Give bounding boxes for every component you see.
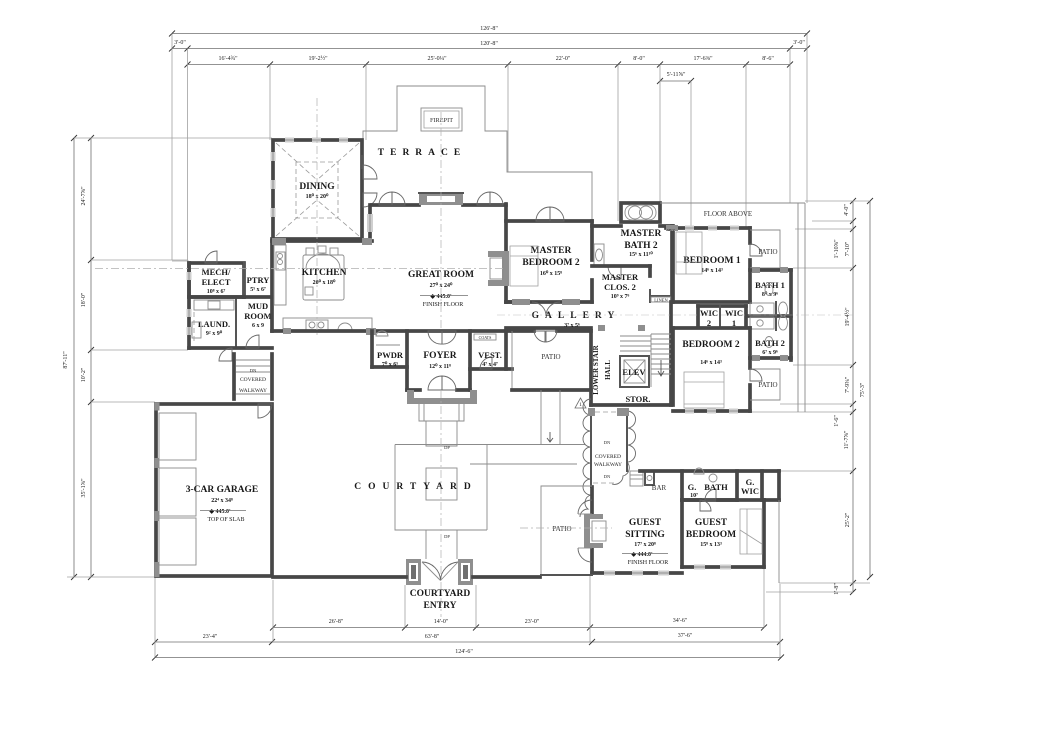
room label MASTER BEDROOM 2 bbox=[522, 246, 580, 277]
svg-text:GALLERY: GALLERY bbox=[532, 311, 621, 321]
room VEST walls bbox=[470, 331, 512, 369]
svg-text:SITTING: SITTING bbox=[625, 530, 665, 540]
svg-text:LAUND.: LAUND. bbox=[198, 319, 230, 329]
room DINING walls bbox=[273, 140, 362, 239]
room BEDROOM 1 bbox=[683, 256, 741, 274]
patio lower right bbox=[750, 369, 780, 400]
svg-text:126'-8": 126'-8" bbox=[480, 26, 498, 32]
entry porch bbox=[407, 390, 477, 446]
south wall bbox=[273, 575, 540, 579]
svg-text:7⁰ x 6⁵: 7⁰ x 6⁵ bbox=[382, 361, 398, 368]
svg-text:25'-2": 25'-2" bbox=[845, 512, 851, 527]
svg-text:COVERED: COVERED bbox=[595, 454, 621, 460]
svg-text:PATIO: PATIO bbox=[758, 248, 777, 256]
svg-text:FOYER: FOYER bbox=[423, 351, 456, 361]
svg-text:12⁰ x 11⁸: 12⁰ x 11⁸ bbox=[429, 363, 451, 370]
svg-text:1'-6": 1'-6" bbox=[834, 415, 840, 427]
svg-text:16'-4¾": 16'-4¾" bbox=[218, 55, 238, 62]
guest sitting fireplace bbox=[584, 514, 606, 548]
room GUEST BEDROOM walls bbox=[682, 500, 764, 567]
guest wing right lines bbox=[778, 500, 780, 583]
svg-text:18'-0": 18'-0" bbox=[81, 292, 87, 307]
svg-text:5⁵ x 6⁷: 5⁵ x 6⁷ bbox=[250, 287, 266, 293]
dimension line bottom 124'-6" bbox=[152, 649, 784, 661]
patio walkway to courtyard bbox=[541, 390, 560, 444]
svg-text:FLOOR ABOVE: FLOOR ABOVE bbox=[704, 210, 752, 218]
svg-text:BEDROOM 2: BEDROOM 2 bbox=[682, 340, 740, 350]
dimension lines left side bbox=[63, 135, 94, 580]
svg-text:MASTER: MASTER bbox=[621, 229, 662, 239]
room label LOWER STAIR HALL bbox=[592, 344, 612, 394]
svg-text:25'-0¼": 25'-0¼" bbox=[427, 56, 447, 62]
svg-text:ELEV: ELEV bbox=[622, 367, 646, 377]
room label G BATH bbox=[688, 482, 728, 499]
svg-text:10'-2": 10'-2" bbox=[81, 367, 87, 382]
courtyard entry posts bbox=[406, 559, 473, 585]
svg-text:DN: DN bbox=[604, 474, 611, 479]
room G BATH walls bbox=[682, 468, 737, 500]
linen closet bbox=[651, 297, 671, 303]
svg-text:8⁰ x 9⁶: 8⁰ x 9⁶ bbox=[762, 291, 778, 298]
master bedroom doors to terrace bbox=[536, 207, 564, 221]
bedroom2 bed furniture bbox=[684, 372, 724, 408]
windows dining left wall bbox=[271, 152, 276, 217]
room BATH 1 walls bbox=[750, 267, 791, 360]
svg-text:22'-0": 22'-0" bbox=[556, 56, 571, 62]
room label GUEST SITTING bbox=[622, 518, 668, 566]
room MECH/ELECT walls bbox=[172, 261, 244, 297]
windows bedroom2 bottom wall bbox=[685, 409, 738, 414]
svg-text:4⁷ x 4⁷: 4⁷ x 4⁷ bbox=[482, 362, 498, 368]
svg-text:PATIO: PATIO bbox=[541, 353, 560, 361]
svg-text:WALKWAY: WALKWAY bbox=[239, 388, 267, 394]
svg-text:DP: DP bbox=[444, 445, 450, 450]
svg-text:6 x 9: 6 x 9 bbox=[252, 323, 264, 329]
svg-text:CLOS. 2: CLOS. 2 bbox=[604, 282, 636, 292]
svg-text:20⁰ x 18⁰: 20⁰ x 18⁰ bbox=[313, 279, 336, 286]
room label MECH/ELECT bbox=[202, 267, 231, 295]
bedroom wing top wall bbox=[666, 225, 750, 302]
bedroom1 right wall and patio door bbox=[750, 228, 762, 302]
guest wing top wall bbox=[640, 471, 779, 500]
firepit bbox=[421, 108, 462, 131]
svg-text:◆ 444.0': ◆ 444.0' bbox=[630, 551, 653, 558]
room label GALLERY bbox=[532, 311, 621, 329]
courtyard east edge lines bbox=[395, 445, 585, 531]
floor above outline bbox=[660, 203, 805, 412]
svg-text:3-CAR GARAGE: 3-CAR GARAGE bbox=[186, 485, 259, 495]
svg-text:63'-8": 63'-8" bbox=[425, 634, 440, 640]
window great room west wall bbox=[367, 214, 373, 232]
dining door arc to terrace bbox=[363, 165, 377, 179]
svg-text:DN: DN bbox=[604, 440, 611, 445]
room label MUD ROOM bbox=[244, 301, 271, 329]
centerline gallery bbox=[497, 314, 853, 316]
svg-text:SH.V: SH.V bbox=[667, 228, 675, 232]
patio center walls bbox=[512, 331, 591, 390]
room label PTRY bbox=[247, 275, 270, 293]
laundry counters bbox=[192, 300, 234, 344]
svg-text:1'-10⅝": 1'-10⅝" bbox=[834, 239, 840, 259]
svg-text:ROOM: ROOM bbox=[244, 311, 271, 321]
svg-text:PATIO: PATIO bbox=[758, 381, 777, 389]
courtyard centerline bbox=[441, 390, 450, 617]
windows bedroom1 top wall bbox=[685, 226, 739, 231]
svg-text:16⁰ x 15⁸: 16⁰ x 15⁸ bbox=[540, 270, 562, 277]
garage door arc top right bbox=[258, 404, 272, 418]
patio guest bbox=[520, 486, 612, 575]
svg-text:BEDROOM: BEDROOM bbox=[686, 530, 736, 540]
room MUD ROOM walls bbox=[189, 263, 272, 348]
svg-text:BEDROOM 1: BEDROOM 1 bbox=[683, 256, 741, 266]
svg-text:37'-6": 37'-6" bbox=[678, 633, 693, 639]
svg-text:MASTER: MASTER bbox=[531, 246, 572, 256]
svg-text:COVERED: COVERED bbox=[240, 377, 266, 383]
stair hall opening to gallery bbox=[598, 325, 645, 331]
extension lines right bbox=[748, 201, 870, 592]
svg-text:FINISH FLOOR: FINISH FLOOR bbox=[423, 302, 464, 308]
svg-text:23'-4": 23'-4" bbox=[203, 634, 218, 640]
svg-text:G.: G. bbox=[688, 482, 697, 492]
courtyard paved square bbox=[395, 445, 487, 531]
svg-text:WIC: WIC bbox=[725, 308, 743, 318]
windows mech left wall bbox=[187, 272, 192, 335]
extension lines left bbox=[67, 138, 272, 577]
room label WIC 1 bbox=[725, 308, 743, 328]
svg-text:34'-6": 34'-6" bbox=[673, 618, 688, 624]
wall great room south bbox=[272, 328, 510, 335]
room label BATH 2 bbox=[755, 338, 785, 356]
dimension line top 126'-8" bbox=[169, 26, 810, 37]
svg-text:WIC: WIC bbox=[700, 308, 718, 318]
room label COURTYARD ENTRY bbox=[410, 589, 471, 611]
svg-text:19'-2½": 19'-2½" bbox=[308, 55, 328, 62]
svg-text:WIC: WIC bbox=[741, 486, 759, 496]
master bed furniture dashed bbox=[510, 246, 538, 286]
master bedroom door arcs to gallery bbox=[532, 302, 560, 316]
svg-text:120'-8": 120'-8" bbox=[480, 41, 498, 47]
svg-text:1'-8": 1'-8" bbox=[834, 583, 840, 595]
svg-text:MASTER: MASTER bbox=[602, 272, 639, 282]
extension lines top bbox=[172, 34, 807, 263]
svg-text:11'-7⅝": 11'-7⅝" bbox=[844, 430, 850, 449]
centerline greatroom bbox=[440, 112, 442, 331]
svg-text:ENTRY: ENTRY bbox=[424, 601, 457, 611]
dimension line top segments bbox=[185, 55, 794, 68]
room BEDROOM 2 walls bbox=[673, 328, 750, 411]
dining tray ceiling dashed bbox=[276, 143, 359, 236]
scalloped covered walkway right bbox=[580, 399, 636, 517]
svg-text:LOWER STAIR: LOWER STAIR bbox=[592, 344, 600, 394]
svg-text:FINISH FLOOR: FINISH FLOOR bbox=[628, 560, 669, 566]
mud room door arc bbox=[246, 335, 259, 348]
master bath fixtures bbox=[594, 244, 621, 279]
room PWDR walls bbox=[372, 331, 407, 390]
svg-text:DN: DN bbox=[250, 368, 257, 373]
svg-text:GUEST: GUEST bbox=[629, 518, 662, 528]
room label KITCHEN bbox=[302, 268, 347, 286]
great room fireplace bbox=[419, 193, 463, 205]
svg-text:KITCHEN: KITCHEN bbox=[302, 268, 347, 278]
svg-text:BAR: BAR bbox=[652, 484, 667, 492]
garage walls bbox=[155, 403, 273, 578]
room label BEDROOM 2 bbox=[682, 340, 740, 366]
svg-text:75'-3": 75'-3" bbox=[860, 382, 866, 397]
kitchen counters left bbox=[274, 245, 286, 305]
dimension line top 5'-11 sub bbox=[657, 72, 694, 84]
room label MASTER CLOS 2 bbox=[602, 272, 639, 300]
svg-text:WALKWAY: WALKWAY bbox=[594, 462, 622, 468]
windows dining top wall bbox=[285, 138, 348, 143]
windows guest bedroom bottom wall bbox=[694, 565, 731, 570]
guest bed furniture bbox=[740, 509, 762, 554]
svg-text:35'-1⅝": 35'-1⅝" bbox=[81, 478, 87, 498]
great room french doors to terrace bbox=[379, 192, 503, 205]
svg-text:BATH 2: BATH 2 bbox=[624, 241, 658, 251]
svg-text:VEST.: VEST. bbox=[478, 350, 502, 360]
svg-text:17⁷ x 20⁸: 17⁷ x 20⁸ bbox=[634, 542, 656, 548]
room label FOYER bbox=[423, 351, 456, 370]
room label BATH 1 bbox=[755, 280, 785, 298]
centerline horizontal main bbox=[95, 268, 505, 270]
guest sitting doors bbox=[578, 500, 592, 562]
elevator bbox=[620, 356, 649, 387]
svg-text:14'-0": 14'-0" bbox=[434, 619, 449, 625]
room BATH 2 walls bbox=[750, 355, 791, 361]
dimension lines right side bbox=[834, 198, 873, 595]
pwdr fixtures bbox=[376, 331, 400, 345]
gallery walls bbox=[506, 299, 591, 328]
svg-text:TERRACE: TERRACE bbox=[378, 148, 466, 158]
centerline dining-kitchen bbox=[316, 98, 318, 335]
svg-text:COATS: COATS bbox=[479, 335, 492, 340]
svg-text:3'-0": 3'-0" bbox=[793, 40, 805, 46]
svg-text:HALL: HALL bbox=[604, 360, 612, 380]
svg-text:17'-6⅜": 17'-6⅜" bbox=[693, 56, 713, 62]
svg-text:87'-11": 87'-11" bbox=[63, 351, 69, 369]
courtyard south walk bbox=[426, 530, 457, 559]
mech door arc bbox=[205, 251, 217, 263]
stair hall walls bbox=[591, 302, 671, 405]
svg-text:3'-0": 3'-0" bbox=[174, 40, 186, 46]
svg-text:3⁷ x 5⁶: 3⁷ x 5⁶ bbox=[564, 323, 580, 329]
svg-text:7'-9⅝": 7'-9⅝" bbox=[845, 376, 851, 393]
room PTRY walls bbox=[244, 263, 272, 297]
svg-text:COURTYARD: COURTYARD bbox=[410, 589, 471, 599]
svg-text:GUEST: GUEST bbox=[695, 518, 728, 528]
svg-text:15⁸ x 13³: 15⁸ x 13³ bbox=[700, 542, 722, 548]
svg-text:BATH 2: BATH 2 bbox=[755, 338, 785, 348]
dimension lines bottom row1 bbox=[270, 618, 767, 631]
courtyard entry doors bbox=[422, 562, 458, 581]
dimension line top 120'-8" bbox=[169, 40, 810, 52]
svg-text:8'-0": 8'-0" bbox=[633, 56, 645, 62]
svg-text:FIREPIT: FIREPIT bbox=[430, 117, 453, 124]
windows guest sitting bottom wall bbox=[604, 571, 669, 576]
svg-text:LINEN: LINEN bbox=[654, 298, 668, 303]
room label PWDR bbox=[377, 350, 404, 368]
svg-text:19'-4½": 19'-4½" bbox=[844, 307, 851, 327]
svg-text:9² x 9⁰: 9² x 9⁰ bbox=[206, 330, 223, 337]
room GUEST SITTING walls bbox=[592, 487, 682, 573]
hall and wic walls bbox=[673, 302, 750, 327]
room label DINING bbox=[299, 182, 335, 200]
garage door bays bbox=[159, 413, 196, 565]
bath fixtures column bbox=[748, 285, 791, 348]
svg-text:BATH: BATH bbox=[704, 482, 728, 492]
room FOYER walls bbox=[407, 331, 470, 390]
room MASTER CLOS 2 walls bbox=[592, 266, 672, 302]
room label GUEST BEDROOM bbox=[686, 518, 736, 548]
svg-text:MUD: MUD bbox=[248, 301, 268, 311]
covered walkway left bbox=[234, 354, 272, 399]
svg-text:ELECT: ELECT bbox=[202, 277, 231, 287]
room GREAT ROOM walls bbox=[372, 204, 506, 302]
kitchen island bbox=[303, 246, 344, 300]
svg-text:15⁶ x 11¹⁰: 15⁶ x 11¹⁰ bbox=[629, 251, 653, 258]
svg-text:6⁷ x 9⁶: 6⁷ x 9⁶ bbox=[762, 350, 778, 356]
room G WIC walls bbox=[741, 471, 762, 500]
room MASTER BEDROOM 2 walls bbox=[506, 221, 592, 302]
svg-text:26'-8": 26'-8" bbox=[329, 619, 344, 625]
bar nook bbox=[630, 471, 667, 492]
svg-text:14⁶ x 14³: 14⁶ x 14³ bbox=[700, 360, 722, 366]
svg-text:5'-11⅝": 5'-11⅝" bbox=[667, 72, 686, 78]
svg-text:10⁷: 10⁷ bbox=[690, 493, 698, 499]
great room fireplace east wall bbox=[488, 251, 509, 286]
room label GREAT ROOM bbox=[408, 270, 474, 308]
svg-text:10⁹ x 7⁶: 10⁹ x 7⁶ bbox=[611, 294, 630, 300]
kitchen lower counters bbox=[283, 318, 372, 330]
svg-text:TOP OF SLAB: TOP OF SLAB bbox=[207, 517, 244, 523]
room MASTER BATH 2 walls bbox=[592, 203, 673, 302]
svg-text:BEDROOM 2: BEDROOM 2 bbox=[522, 258, 580, 268]
svg-text:PTRY: PTRY bbox=[247, 275, 270, 285]
svg-text:124'-6": 124'-6" bbox=[455, 649, 473, 655]
svg-text:22⁴ x 34⁸: 22⁴ x 34⁸ bbox=[211, 498, 233, 504]
room label 3-CAR GARAGE bbox=[186, 485, 259, 523]
dimension lines bottom row2 bbox=[152, 633, 783, 645]
keynote triangle bbox=[575, 398, 586, 408]
room label MASTER BATH 2 bbox=[621, 229, 662, 258]
terrace outline bbox=[363, 86, 592, 220]
foyer entry doors bbox=[428, 331, 456, 390]
svg-text:PWDR: PWDR bbox=[377, 350, 404, 360]
room label LAUND bbox=[198, 319, 230, 337]
svg-text:DP: DP bbox=[444, 534, 450, 539]
svg-text:COURTYARD: COURTYARD bbox=[354, 482, 478, 492]
extension lines bottom bbox=[155, 568, 780, 658]
svg-text:STOR.: STOR. bbox=[625, 394, 650, 404]
svg-text:23'-0": 23'-0" bbox=[525, 619, 540, 625]
svg-text:14⁶ x 14³: 14⁶ x 14³ bbox=[701, 268, 723, 274]
svg-text:10⁸ x 6⁷: 10⁸ x 6⁷ bbox=[207, 289, 226, 295]
room label WIC 2 bbox=[700, 308, 718, 328]
svg-text:◆ 445.0': ◆ 445.0' bbox=[208, 508, 231, 515]
patio upper right bbox=[750, 230, 780, 268]
svg-text:PATIO: PATIO bbox=[552, 525, 571, 533]
room label VEST bbox=[478, 350, 502, 368]
svg-text:8'-6": 8'-6" bbox=[762, 56, 774, 62]
svg-text:4'-0": 4'-0" bbox=[844, 204, 850, 216]
stair treads bbox=[620, 334, 671, 387]
room KITCHEN walls bbox=[272, 205, 372, 331]
bedroom1 bed furniture bbox=[676, 232, 702, 274]
svg-text:7'-10": 7'-10" bbox=[845, 241, 851, 256]
svg-text:24'-7⅝": 24'-7⅝" bbox=[81, 186, 87, 206]
